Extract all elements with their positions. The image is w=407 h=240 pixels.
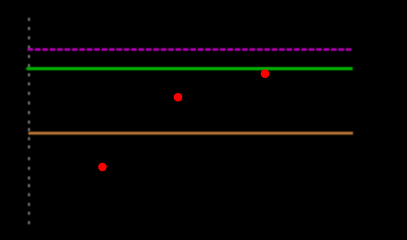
green solid horizontal line (27, 67, 353, 70)
red data point 2 (174, 93, 183, 102)
red data point 3 (261, 69, 270, 78)
brown solid horizontal line (28, 132, 353, 135)
green line faint left lead-in (26, 67, 28, 69)
red data point 1 (98, 163, 107, 172)
y-axis tick label marks (faint grey) (28, 18, 30, 225)
magenta dashed horizontal line (28, 48, 352, 50)
